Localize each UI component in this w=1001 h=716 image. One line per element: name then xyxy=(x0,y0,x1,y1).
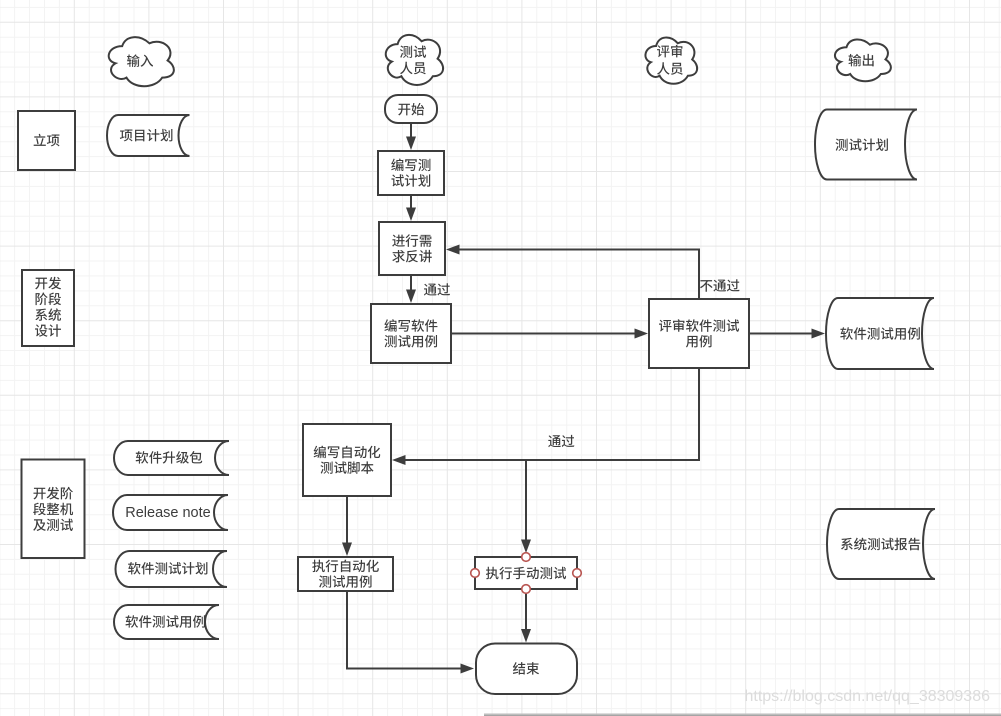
svg-text:Release note: Release note xyxy=(125,505,210,521)
svg-text:https://blog.csdn.net/qq_38309: https://blog.csdn.net/qq_38309386 xyxy=(744,688,990,705)
